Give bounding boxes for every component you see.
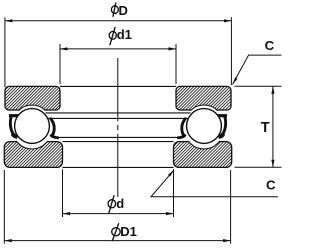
phiD right arrow bbox=[224, 19, 232, 22]
phiD1 right arrow bbox=[223, 239, 231, 242]
phid right extension line bbox=[173, 169, 175, 217]
chamfer C top leader bbox=[233, 55, 282, 84]
phiD1 left extension line bbox=[3, 170, 5, 244]
phiD label bbox=[111, 3, 127, 18]
ball right bbox=[187, 109, 222, 144]
bottom housing washer right cross-section bbox=[174, 111, 232, 168]
phid1 label bbox=[109, 27, 132, 45]
dimension phiD1 line bbox=[4, 240, 230, 242]
svg-text:D1: D1 bbox=[120, 224, 137, 239]
chamfer C top arrow bbox=[233, 77, 238, 84]
svg-text:D: D bbox=[119, 3, 128, 18]
phid1 left extension line bbox=[59, 44, 61, 84]
phiD1 left arrow bbox=[4, 239, 12, 242]
dimension phid1 line bbox=[60, 48, 176, 50]
phiD1 right extension line bbox=[230, 170, 232, 244]
top shaft washer left cross-section bbox=[5, 86, 60, 143]
top washer top face line bbox=[60, 85, 176, 87]
phid1 left arrow bbox=[60, 47, 68, 50]
svg-text:C: C bbox=[266, 177, 276, 192]
bottom washer bottom face line bbox=[63, 166, 174, 168]
chamfer C bottom arrow bbox=[168, 170, 174, 177]
chamfer C bottom leader bbox=[151, 170, 278, 197]
cage bottom rail line bbox=[57, 136, 179, 138]
phiD left arrow bbox=[5, 19, 12, 22]
cage band upper edge line bbox=[46, 112, 191, 114]
phid left extension line bbox=[62, 169, 64, 217]
T top arrow bbox=[271, 86, 274, 94]
T top extension line bbox=[235, 85, 282, 87]
phid label bbox=[108, 195, 124, 214]
cage inboard hook, left ball bbox=[50, 119, 59, 140]
phid1 right arrow bbox=[169, 47, 177, 50]
bottom washer top face line bbox=[63, 141, 174, 143]
dimension T line bbox=[272, 86, 274, 167]
phid left arrow bbox=[63, 212, 71, 215]
cage band lower edge line bbox=[46, 117, 191, 119]
svg-text:T: T bbox=[261, 120, 270, 136]
vertical centerline bbox=[117, 58, 119, 197]
T bottom arrow bbox=[271, 160, 274, 168]
dimension phiD line bbox=[5, 20, 231, 22]
cage outboard hook, left ball bbox=[9, 114, 22, 139]
ball left bbox=[15, 109, 50, 144]
dimension phid line bbox=[63, 213, 174, 215]
cage inboard hook, right ball bbox=[177, 119, 186, 140]
svg-text:d: d bbox=[116, 196, 124, 211]
top shaft washer right cross-section bbox=[176, 86, 231, 143]
bottom housing washer left cross-section bbox=[4, 111, 62, 168]
phiD1 label bbox=[112, 223, 137, 241]
phid right arrow bbox=[166, 212, 174, 215]
phiD left extension line bbox=[4, 17, 6, 87]
phid1 right extension line bbox=[175, 44, 177, 84]
phiD right extension line bbox=[230, 17, 232, 85]
T bottom extension line bbox=[235, 166, 282, 168]
svg-text:C: C bbox=[265, 38, 275, 53]
svg-text:d1: d1 bbox=[117, 27, 132, 42]
cage outboard hook, right ball bbox=[214, 114, 227, 139]
